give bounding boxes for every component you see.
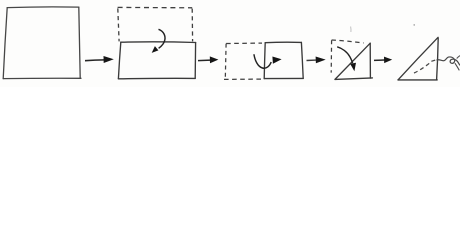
step3 wrap-around fold arrow <box>254 54 282 68</box>
arrow 3 <box>307 57 326 64</box>
step2 fold-down curved arrow <box>152 29 165 53</box>
step5 finished triangle <box>398 37 438 80</box>
step5 scribble strand lower <box>455 63 459 70</box>
step4 dashed corner (before fold) <box>331 40 363 73</box>
step5 scribble arrow tail <box>437 57 460 65</box>
step4 diagonal fold arrow <box>337 47 356 71</box>
step3 folded rectangle <box>264 42 303 78</box>
arrow 4 <box>374 57 392 64</box>
step5 dashed unfold arc <box>414 60 436 73</box>
step3 dashed unfolded half <box>224 43 262 79</box>
step5 scribble strand upper <box>457 56 460 59</box>
step2 dashed unfolded half <box>118 7 193 41</box>
arrow 1 <box>85 56 114 63</box>
arrow 2 <box>198 56 218 63</box>
faint smudge above step4 arrow <box>350 27 352 33</box>
speck above triangle <box>413 24 415 26</box>
step2 folded rectangle <box>118 42 195 79</box>
step4 folded triangle <box>335 43 372 79</box>
step1 square sheet <box>3 7 81 79</box>
